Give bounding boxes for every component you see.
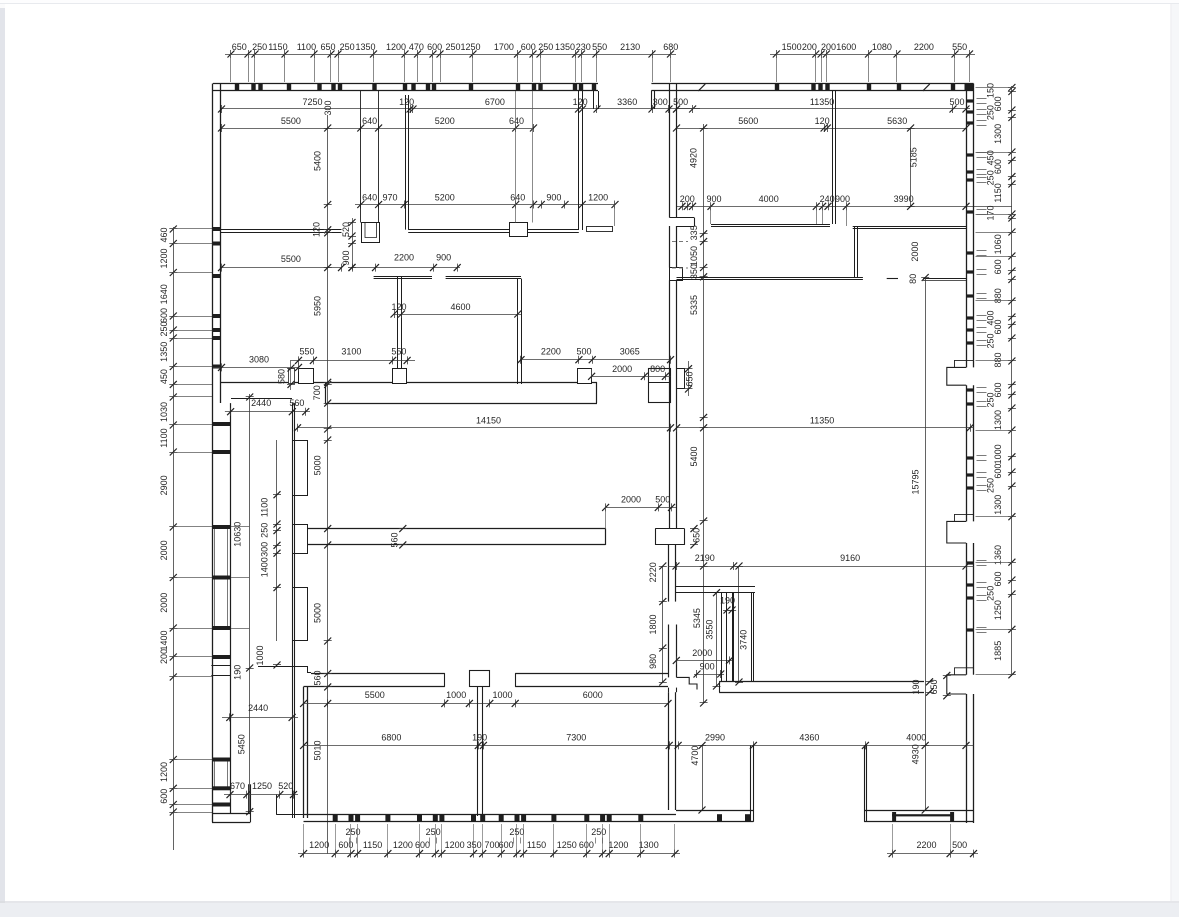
svg-text:5500: 5500 bbox=[281, 116, 301, 126]
svg-text:880: 880 bbox=[993, 352, 1003, 367]
svg-text:1600: 1600 bbox=[836, 42, 856, 52]
svg-text:120: 120 bbox=[573, 97, 588, 107]
svg-text:230: 230 bbox=[576, 42, 591, 52]
svg-text:4930: 4930 bbox=[911, 744, 921, 764]
svg-text:1200: 1200 bbox=[159, 762, 169, 782]
svg-text:520: 520 bbox=[341, 222, 351, 237]
svg-text:4000: 4000 bbox=[906, 733, 926, 743]
svg-text:900: 900 bbox=[546, 193, 561, 203]
svg-text:640: 640 bbox=[509, 116, 524, 126]
svg-text:5400: 5400 bbox=[689, 446, 699, 466]
svg-text:5000: 5000 bbox=[313, 455, 323, 475]
svg-text:5500: 5500 bbox=[365, 690, 385, 700]
svg-text:1300: 1300 bbox=[993, 124, 1003, 144]
svg-text:190: 190 bbox=[472, 733, 487, 743]
svg-text:250: 250 bbox=[345, 827, 360, 837]
svg-text:2000: 2000 bbox=[692, 648, 712, 658]
svg-text:1200: 1200 bbox=[393, 840, 413, 850]
svg-text:1200: 1200 bbox=[309, 840, 329, 850]
svg-text:3080: 3080 bbox=[249, 354, 269, 364]
svg-text:650: 650 bbox=[320, 42, 335, 52]
svg-text:580: 580 bbox=[277, 369, 287, 384]
svg-text:120: 120 bbox=[312, 222, 322, 237]
svg-text:5600: 5600 bbox=[738, 116, 758, 126]
svg-text:5450: 5450 bbox=[237, 734, 247, 754]
svg-text:6800: 6800 bbox=[381, 733, 401, 743]
svg-text:120: 120 bbox=[391, 302, 406, 312]
svg-text:5630: 5630 bbox=[887, 116, 907, 126]
svg-text:1150: 1150 bbox=[268, 42, 287, 52]
svg-text:190: 190 bbox=[911, 679, 921, 694]
svg-text:670: 670 bbox=[230, 781, 245, 791]
svg-text:1360: 1360 bbox=[993, 545, 1003, 565]
svg-text:5185: 5185 bbox=[908, 147, 918, 167]
svg-text:4000: 4000 bbox=[759, 194, 779, 204]
svg-text:550: 550 bbox=[299, 346, 314, 356]
svg-text:5200: 5200 bbox=[435, 193, 455, 203]
svg-text:6700: 6700 bbox=[485, 97, 505, 107]
svg-text:2990: 2990 bbox=[705, 733, 725, 743]
svg-text:190: 190 bbox=[233, 665, 243, 680]
svg-text:1250: 1250 bbox=[252, 781, 272, 791]
svg-text:500: 500 bbox=[576, 346, 591, 356]
svg-text:1050: 1050 bbox=[689, 246, 699, 266]
svg-text:600: 600 bbox=[427, 42, 442, 52]
svg-text:335: 335 bbox=[689, 225, 699, 240]
svg-text:1400: 1400 bbox=[159, 630, 169, 650]
svg-text:1250: 1250 bbox=[460, 42, 480, 52]
svg-text:1250: 1250 bbox=[993, 600, 1003, 620]
svg-text:1000: 1000 bbox=[993, 444, 1003, 464]
svg-text:640: 640 bbox=[362, 193, 377, 203]
svg-text:2000: 2000 bbox=[159, 540, 169, 560]
svg-text:1800: 1800 bbox=[648, 614, 658, 634]
svg-text:450: 450 bbox=[159, 369, 169, 384]
svg-text:1080: 1080 bbox=[872, 42, 892, 52]
svg-text:2190: 2190 bbox=[695, 553, 715, 563]
svg-text:550: 550 bbox=[592, 42, 607, 52]
svg-text:460: 460 bbox=[159, 227, 169, 242]
svg-text:170: 170 bbox=[986, 205, 996, 220]
svg-text:200: 200 bbox=[159, 649, 169, 664]
svg-text:4360: 4360 bbox=[799, 733, 819, 743]
svg-text:120: 120 bbox=[399, 97, 414, 107]
svg-text:1150: 1150 bbox=[363, 840, 382, 850]
svg-text:2000: 2000 bbox=[159, 593, 169, 613]
svg-text:900: 900 bbox=[341, 250, 351, 265]
svg-text:7300: 7300 bbox=[566, 733, 586, 743]
svg-text:970: 970 bbox=[382, 193, 397, 203]
svg-text:500: 500 bbox=[673, 97, 688, 107]
svg-text:600: 600 bbox=[499, 840, 514, 850]
svg-text:1200: 1200 bbox=[445, 840, 465, 850]
svg-text:1030: 1030 bbox=[159, 402, 169, 422]
svg-text:2000: 2000 bbox=[612, 364, 632, 374]
svg-text:250: 250 bbox=[538, 42, 553, 52]
svg-text:5000: 5000 bbox=[313, 603, 323, 623]
svg-text:600: 600 bbox=[993, 259, 1003, 274]
svg-text:700: 700 bbox=[484, 840, 499, 850]
svg-text:150: 150 bbox=[986, 83, 996, 98]
svg-text:3740: 3740 bbox=[739, 630, 749, 650]
svg-text:900: 900 bbox=[835, 194, 850, 204]
svg-text:600: 600 bbox=[338, 840, 353, 850]
svg-text:500: 500 bbox=[949, 97, 964, 107]
svg-text:800: 800 bbox=[650, 364, 665, 374]
svg-text:500: 500 bbox=[655, 495, 670, 505]
svg-text:1100: 1100 bbox=[159, 428, 169, 447]
svg-text:9160: 9160 bbox=[840, 553, 860, 563]
svg-text:680: 680 bbox=[663, 42, 678, 52]
svg-text:2130: 2130 bbox=[620, 42, 640, 52]
svg-text:1000: 1000 bbox=[255, 645, 265, 665]
svg-text:1500: 1500 bbox=[782, 42, 802, 52]
svg-text:250: 250 bbox=[426, 827, 441, 837]
svg-text:120: 120 bbox=[815, 116, 830, 126]
svg-text:700: 700 bbox=[312, 385, 322, 400]
svg-text:1350: 1350 bbox=[555, 42, 575, 52]
svg-text:300: 300 bbox=[323, 100, 333, 115]
svg-text:250: 250 bbox=[340, 42, 355, 52]
svg-text:1300: 1300 bbox=[993, 410, 1003, 430]
svg-text:1150: 1150 bbox=[993, 183, 1003, 202]
svg-text:1200: 1200 bbox=[159, 248, 169, 268]
svg-text:250: 250 bbox=[260, 523, 270, 538]
svg-text:250: 250 bbox=[986, 478, 996, 493]
svg-text:11350: 11350 bbox=[810, 415, 834, 425]
svg-text:900: 900 bbox=[706, 194, 721, 204]
svg-text:600: 600 bbox=[993, 571, 1003, 586]
svg-text:2000: 2000 bbox=[910, 242, 920, 262]
svg-text:1250: 1250 bbox=[557, 840, 577, 850]
svg-text:550: 550 bbox=[952, 42, 967, 52]
svg-text:980: 980 bbox=[648, 654, 658, 669]
svg-text:11350: 11350 bbox=[810, 97, 834, 107]
svg-text:200: 200 bbox=[821, 42, 836, 52]
svg-text:600: 600 bbox=[159, 308, 169, 323]
svg-text:880: 880 bbox=[993, 288, 1003, 303]
svg-text:600: 600 bbox=[415, 840, 430, 850]
svg-text:1300: 1300 bbox=[993, 495, 1003, 515]
svg-text:2220: 2220 bbox=[648, 562, 658, 582]
svg-text:600: 600 bbox=[993, 319, 1003, 334]
svg-text:2000: 2000 bbox=[621, 495, 641, 505]
svg-text:4600: 4600 bbox=[450, 302, 470, 312]
svg-text:2900: 2900 bbox=[159, 475, 169, 495]
svg-text:2200: 2200 bbox=[914, 42, 934, 52]
svg-text:1640: 1640 bbox=[159, 284, 169, 304]
svg-text:5345: 5345 bbox=[692, 608, 702, 628]
svg-text:200: 200 bbox=[680, 194, 695, 204]
svg-text:5200: 5200 bbox=[435, 116, 455, 126]
svg-text:3065: 3065 bbox=[620, 346, 640, 356]
svg-text:1150: 1150 bbox=[527, 840, 546, 850]
svg-text:14150: 14150 bbox=[476, 415, 501, 425]
svg-text:3360: 3360 bbox=[617, 97, 637, 107]
svg-text:560: 560 bbox=[313, 670, 323, 685]
svg-text:1000: 1000 bbox=[446, 690, 466, 700]
svg-text:1100: 1100 bbox=[297, 42, 316, 52]
svg-text:1700: 1700 bbox=[494, 42, 514, 52]
svg-text:1350: 1350 bbox=[355, 42, 375, 52]
svg-text:900: 900 bbox=[700, 661, 715, 671]
svg-text:2200: 2200 bbox=[541, 346, 561, 356]
svg-text:250: 250 bbox=[986, 333, 996, 348]
svg-text:520: 520 bbox=[278, 781, 293, 791]
svg-text:600: 600 bbox=[993, 382, 1003, 397]
svg-text:1200: 1200 bbox=[386, 42, 406, 52]
svg-text:1200: 1200 bbox=[588, 193, 608, 203]
svg-text:250: 250 bbox=[159, 321, 169, 336]
svg-text:1000: 1000 bbox=[492, 690, 512, 700]
svg-text:1100: 1100 bbox=[260, 498, 270, 517]
svg-text:7250: 7250 bbox=[302, 97, 322, 107]
svg-text:4920: 4920 bbox=[689, 148, 699, 168]
svg-text:600: 600 bbox=[993, 96, 1003, 111]
svg-text:550: 550 bbox=[391, 346, 406, 356]
svg-text:250: 250 bbox=[252, 42, 267, 52]
svg-text:2200: 2200 bbox=[394, 253, 414, 263]
svg-text:600: 600 bbox=[159, 789, 169, 804]
svg-text:2440: 2440 bbox=[251, 398, 271, 408]
svg-text:15795: 15795 bbox=[911, 469, 921, 494]
svg-text:10630: 10630 bbox=[233, 522, 243, 547]
svg-text:650: 650 bbox=[232, 42, 247, 52]
svg-text:1300: 1300 bbox=[639, 840, 659, 850]
svg-text:600: 600 bbox=[993, 464, 1003, 479]
svg-text:80: 80 bbox=[908, 274, 918, 284]
svg-text:600: 600 bbox=[521, 42, 536, 52]
svg-text:5500: 5500 bbox=[281, 254, 301, 264]
svg-text:1350: 1350 bbox=[159, 342, 169, 362]
svg-text:600: 600 bbox=[993, 159, 1003, 174]
svg-text:1200: 1200 bbox=[608, 840, 628, 850]
svg-text:560: 560 bbox=[390, 532, 400, 547]
svg-text:350: 350 bbox=[467, 840, 482, 850]
svg-text:250: 250 bbox=[509, 827, 524, 837]
svg-text:1400: 1400 bbox=[260, 557, 270, 577]
svg-text:200: 200 bbox=[802, 42, 817, 52]
svg-text:1885: 1885 bbox=[993, 641, 1003, 661]
svg-text:560: 560 bbox=[289, 398, 304, 408]
svg-text:640: 640 bbox=[510, 193, 525, 203]
svg-text:250: 250 bbox=[986, 586, 996, 601]
svg-text:470: 470 bbox=[409, 42, 424, 52]
svg-text:5010: 5010 bbox=[313, 740, 323, 760]
svg-text:300: 300 bbox=[260, 542, 270, 557]
svg-text:2440: 2440 bbox=[248, 703, 268, 713]
svg-text:250: 250 bbox=[591, 827, 606, 837]
svg-text:900: 900 bbox=[436, 253, 451, 263]
svg-text:250: 250 bbox=[445, 42, 460, 52]
svg-text:5400: 5400 bbox=[313, 151, 323, 171]
svg-text:6000: 6000 bbox=[583, 690, 603, 700]
svg-text:3550: 3550 bbox=[705, 620, 715, 640]
svg-text:3100: 3100 bbox=[341, 346, 361, 356]
svg-text:1060: 1060 bbox=[993, 234, 1003, 254]
svg-text:640: 640 bbox=[362, 116, 377, 126]
svg-text:5950: 5950 bbox=[313, 296, 323, 316]
svg-text:5335: 5335 bbox=[689, 295, 699, 315]
svg-text:2200: 2200 bbox=[916, 840, 936, 850]
svg-text:650: 650 bbox=[684, 371, 694, 386]
svg-text:350: 350 bbox=[689, 264, 699, 279]
svg-text:500: 500 bbox=[952, 840, 967, 850]
